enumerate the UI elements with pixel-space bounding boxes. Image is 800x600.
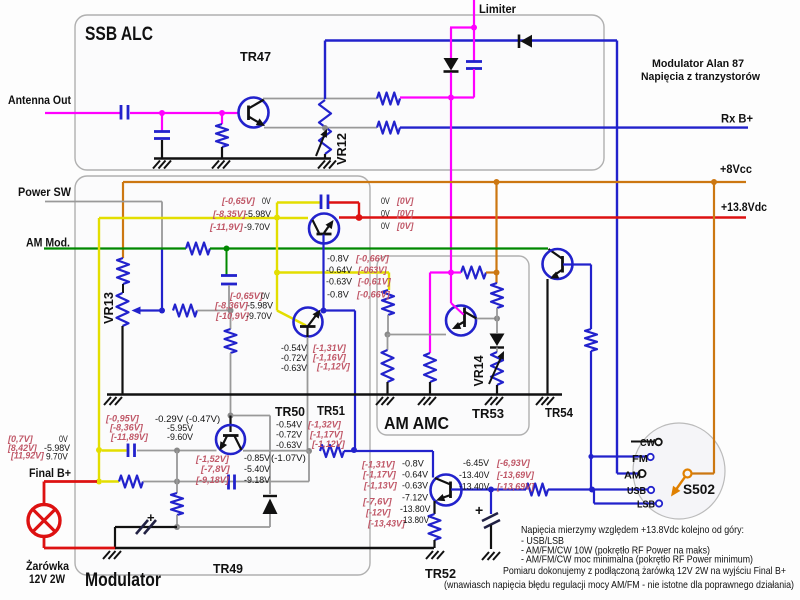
svg-text:Pomiaru dokonujemy z podłączon: Pomiaru dokonujemy z podłączoną żarówką …	[503, 565, 786, 577]
svg-text:[-0,65V]: [-0,65V]	[221, 196, 256, 207]
svg-text:-0.64V: -0.64V	[326, 265, 353, 276]
svg-text:[-8,36V]: [-8,36V]	[214, 301, 249, 312]
svg-text:-0.72V: -0.72V	[276, 430, 303, 441]
svg-text:[-7,8V]: [-7,8V]	[200, 464, 231, 475]
svg-text:[-10,9V]: [-10,9V]	[215, 311, 250, 322]
svg-text:S502: S502	[683, 481, 715, 497]
svg-text:TR49: TR49	[213, 561, 243, 576]
svg-text:-5.98V: -5.98V	[245, 209, 272, 220]
svg-text:+: +	[475, 502, 483, 518]
svg-text:[-1,12V]: [-1,12V]	[316, 362, 351, 373]
svg-text:-0.64V: -0.64V	[402, 470, 429, 481]
svg-text:-0.8V: -0.8V	[327, 254, 349, 265]
svg-text:+8Vcc: +8Vcc	[720, 162, 752, 176]
svg-text:+13.8Vdc: +13.8Vdc	[721, 200, 767, 214]
svg-text:9.70V: 9.70V	[46, 452, 68, 463]
svg-text:Limiter: Limiter	[479, 2, 516, 16]
svg-text:[-13,69V]: [-13,69V]	[496, 470, 535, 481]
svg-text:Modulator Alan 87: Modulator Alan 87	[652, 58, 744, 70]
svg-text:[-1,12V]: [-1,12V]	[311, 439, 346, 450]
svg-text:-9.70V: -9.70V	[244, 222, 271, 233]
svg-text:-6.45V: -6.45V	[463, 458, 490, 469]
svg-text:-5.40V: -5.40V	[244, 464, 271, 475]
svg-text:-13.80V: -13.80V	[400, 504, 431, 515]
svg-text:Antenna Out: Antenna Out	[8, 93, 71, 107]
svg-text:TR47: TR47	[240, 49, 271, 64]
svg-text:FM: FM	[632, 453, 648, 465]
svg-text:-0.63V: -0.63V	[402, 481, 429, 492]
svg-text:[11,92V]: [11,92V]	[10, 451, 44, 462]
svg-text:LSB: LSB	[637, 499, 655, 511]
svg-text:-13.40V: -13.40V	[459, 470, 490, 481]
svg-text:0V: 0V	[381, 221, 390, 232]
svg-text:-0.8V: -0.8V	[402, 459, 424, 470]
svg-text:USB: USB	[627, 485, 646, 497]
svg-text:SSB ALC: SSB ALC	[85, 24, 153, 45]
svg-text:TR53: TR53	[472, 406, 504, 421]
svg-text:-9.18V: -9.18V	[244, 475, 271, 486]
svg-text:TR50: TR50	[275, 404, 305, 419]
svg-text:-0.63V: -0.63V	[326, 277, 353, 288]
svg-text:[0V]: [0V]	[396, 196, 414, 207]
svg-text:12V 2W: 12V 2W	[29, 572, 66, 586]
svg-text:- AM/FM/CW moc minimalna (pokr: - AM/FM/CW moc minimalna (pokrętło RF Po…	[521, 554, 753, 566]
svg-text:0V: 0V	[262, 196, 271, 207]
svg-text:-0.63V: -0.63V	[276, 440, 303, 451]
svg-text:[-8,35V]: [-8,35V]	[212, 209, 247, 220]
svg-text:[-12V]: [-12V]	[365, 508, 391, 519]
svg-text:-9.70V: -9.70V	[246, 311, 273, 322]
svg-text:[-7,6V]: [-7,6V]	[362, 497, 393, 508]
svg-text:-9.60V: -9.60V	[167, 432, 194, 443]
svg-text:Power SW: Power SW	[18, 185, 72, 199]
svg-text:[-11,9V]: [-11,9V]	[209, 222, 244, 233]
svg-text:-0.8V: -0.8V	[327, 290, 349, 301]
svg-text:(wnawiasch napięcia błędu regu: (wnawiasch napięcia błędu regulacji mocy…	[444, 579, 794, 591]
svg-text:Żarówka: Żarówka	[26, 558, 69, 573]
svg-text:[-9,18V]: [-9,18V]	[195, 475, 230, 486]
svg-text:0V: 0V	[381, 196, 390, 207]
svg-text:TR54: TR54	[545, 405, 574, 420]
svg-text:[-0,66V]: [-0,66V]	[355, 254, 390, 265]
svg-text:[-11,89V]: [-11,89V]	[110, 432, 149, 443]
svg-text:[-13,43V]: [-13,43V]	[367, 519, 406, 530]
svg-text:Modulator: Modulator	[85, 570, 161, 591]
svg-text:-0.85V: -0.85V	[244, 453, 271, 464]
svg-text:[-0,61V]: [-0,61V]	[357, 277, 392, 288]
svg-text:VR13: VR13	[101, 292, 116, 324]
svg-text:(-1.07V): (-1.07V)	[271, 453, 306, 464]
svg-text:[-6,93V]: [-6,93V]	[496, 458, 531, 469]
svg-text:[-1,17V]: [-1,17V]	[362, 470, 397, 481]
svg-text:AM: AM	[624, 470, 641, 482]
svg-text:VR14: VR14	[471, 355, 486, 387]
svg-text:Rx B+: Rx B+	[721, 112, 753, 126]
svg-text:[-1,13V]: [-1,13V]	[363, 481, 398, 492]
svg-text:-0.63V: -0.63V	[281, 363, 308, 374]
svg-text:0V: 0V	[381, 209, 390, 220]
svg-text:-7.12V: -7.12V	[402, 493, 429, 504]
svg-text:13.80V: 13.80V	[403, 515, 430, 526]
svg-text:AM Mod.: AM Mod.	[26, 236, 70, 250]
svg-text:AM AMC: AM AMC	[384, 413, 449, 433]
svg-text:[-063V]: [-063V]	[357, 265, 387, 276]
svg-text:[-0,66V]: [-0,66V]	[356, 290, 391, 301]
svg-text:-13.40V: -13.40V	[459, 482, 490, 493]
svg-text:TR51: TR51	[317, 403, 345, 418]
svg-text:Final B+: Final B+	[29, 466, 71, 480]
svg-text:[0V]: [0V]	[396, 209, 414, 220]
svg-text:[-13,69V]: [-13,69V]	[496, 482, 535, 493]
svg-text:Napięcia z tranzystorów: Napięcia z tranzystorów	[641, 71, 760, 83]
svg-text:VR12: VR12	[334, 133, 349, 165]
svg-text:-5.98V: -5.98V	[247, 301, 274, 312]
svg-text:[0V]: [0V]	[396, 221, 414, 232]
svg-text:CW: CW	[640, 437, 655, 449]
svg-text:+: +	[147, 510, 155, 525]
